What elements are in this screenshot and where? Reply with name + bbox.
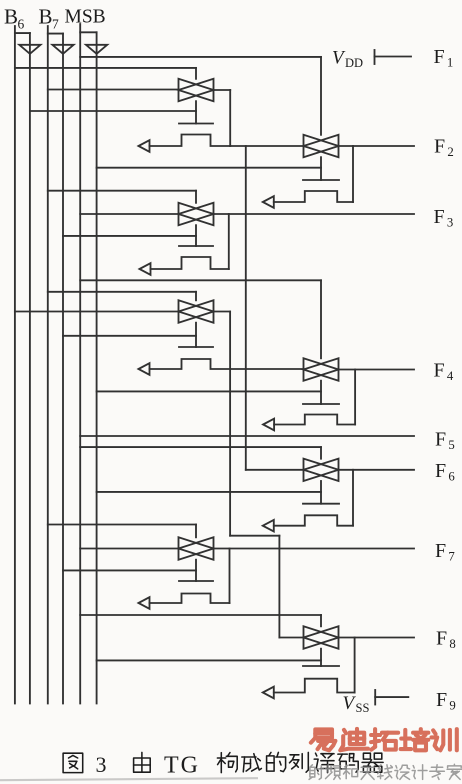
svg-text:F: F: [435, 540, 446, 562]
svg-text:3: 3: [96, 752, 107, 777]
svg-text:8: 8: [449, 637, 455, 651]
svg-text:B: B: [4, 5, 18, 29]
svg-text:F: F: [436, 628, 447, 650]
svg-text:F: F: [435, 429, 446, 451]
svg-text:4: 4: [447, 369, 454, 383]
svg-text:7: 7: [448, 550, 455, 564]
svg-text:7: 7: [52, 17, 59, 32]
svg-text:F: F: [435, 460, 446, 482]
svg-text:9: 9: [449, 699, 455, 713]
svg-text:MSB: MSB: [65, 7, 106, 28]
svg-text:F: F: [436, 689, 447, 711]
svg-text:1: 1: [447, 56, 453, 70]
svg-text:F: F: [434, 46, 445, 68]
svg-text:F: F: [434, 206, 445, 228]
svg-text:F: F: [434, 136, 445, 158]
svg-text:5: 5: [448, 438, 454, 452]
svg-text:3: 3: [447, 216, 453, 230]
svg-text:6: 6: [448, 470, 455, 484]
svg-text:6: 6: [18, 17, 25, 32]
svg-text:B: B: [39, 5, 53, 29]
svg-text:V: V: [343, 693, 357, 714]
svg-text:V: V: [332, 48, 346, 69]
svg-text:2: 2: [447, 145, 453, 159]
svg-text:SS: SS: [356, 701, 370, 715]
svg-text:TG: TG: [164, 753, 200, 779]
svg-text:DD: DD: [345, 56, 363, 70]
svg-text:F: F: [434, 360, 445, 382]
